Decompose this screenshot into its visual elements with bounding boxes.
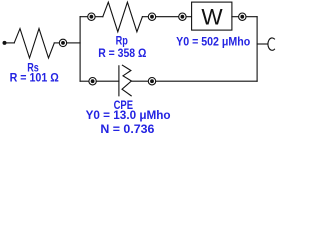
svg-text:R = 358 Ω: R = 358 Ω [98,46,147,60]
wire Rp to node [142,16,148,18]
left terminal dot [3,41,7,45]
node after CPE [148,78,155,85]
wire right vertical [256,17,258,82]
svg-text:N = 0.736: N = 0.736 [100,122,154,135]
node after Rp [148,13,155,20]
wire bottom to right corner [156,80,257,82]
wire C terminal tick [257,43,267,45]
resistor Rp [103,2,143,32]
wire node to Rp [95,16,103,18]
node after W [239,13,246,20]
node before W [179,13,186,20]
Warburg element W box [192,2,232,30]
wire between nodes [156,16,179,18]
wire node to junction [67,42,80,44]
terminal C arc [268,38,275,50]
svg-text:Y0 = 502 μMho: Y0 = 502 μMho [176,34,250,48]
CPE plate [118,66,120,96]
wire Rs to node [54,42,59,44]
wire W box to node [232,16,239,18]
svg-text:R = 101 Ω: R = 101 Ω [10,71,60,85]
wire terminal to Rs [6,42,14,44]
wire node to CPE [96,80,119,82]
node top-left [88,13,95,20]
wire left junction vertical [79,17,81,82]
node after Rs [59,39,66,46]
wire node to W box [186,16,192,18]
svg-text:Y0 = 13.0 μMho: Y0 = 13.0 μMho [86,108,171,122]
resistor Rs [14,29,54,58]
wire top branch start [80,16,88,18]
CPE zigzag [122,65,131,96]
wire CPE to node [131,80,148,82]
wire bottom branch start [80,80,89,82]
svg-text:W: W [201,4,223,29]
node bottom-left [89,78,96,85]
wire node to right corner [246,16,257,18]
